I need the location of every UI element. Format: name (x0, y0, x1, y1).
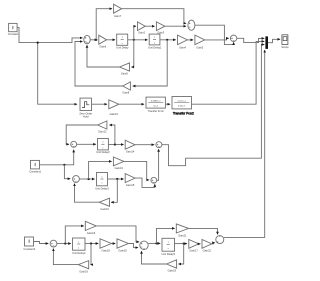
svg-text:Scope: Scope (281, 45, 289, 49)
svg-text:0.05s+1: 0.05s+1 (178, 106, 186, 108)
wire Gain10 to Transfer Fcn1 (119, 103, 144, 105)
sum SC (156, 142, 162, 148)
mux (265, 36, 268, 49)
svg-text:Gain2: Gain2 (138, 31, 145, 35)
wire Gain5 output to sum S1 bottom input (87, 45, 120, 67)
junction on SB out (88, 178, 90, 180)
wire sum SA to Unit Delay2 (77, 143, 96, 145)
wire Gain14 to sum SC (135, 144, 154, 146)
junction after UD4 (90, 242, 92, 244)
wire branch down to Gain8 input (133, 40, 167, 86)
svg-text:Gain19: Gain19 (79, 270, 88, 274)
wire Gain19 to sum SE bottom (53, 249, 78, 265)
svg-text:Gain18: Gain18 (102, 249, 111, 253)
gain G2 (138, 22, 146, 31)
wire Unit Delay5 to Gain17 (175, 243, 187, 245)
gain G5 left-pointing (120, 63, 130, 71)
sum SE (50, 240, 57, 247)
wire sum S3 out to mux input1 (237, 38, 264, 42)
svg-text:Constant1: Constant1 (29, 169, 41, 173)
wire branch down to Gain23 input (179, 244, 184, 264)
gain G19 left-pointing (78, 261, 88, 269)
svg-text:Unit Delay: Unit Delay (116, 46, 129, 50)
wire Constant1 to sum SA bottom (40, 150, 74, 165)
zero-order hold (80, 98, 92, 110)
junction before UD4 (64, 242, 66, 244)
gain G7 (114, 4, 122, 13)
junction after UD2 (114, 143, 116, 145)
wire sum SG to Unit Delay5 (148, 242, 160, 244)
svg-text:Gain21: Gain21 (178, 234, 187, 238)
junction sum S1 out (95, 39, 97, 41)
svg-text:Gain22: Gain22 (203, 249, 212, 253)
svg-text:Gain18: Gain18 (168, 269, 177, 273)
sum SA (71, 141, 77, 147)
transfer fcn TF1 (146, 97, 165, 108)
junction after UD3 (116, 178, 118, 180)
junction after Unit Delay (133, 39, 135, 41)
sum S2 (188, 20, 195, 30)
svg-text:Gain5: Gain5 (196, 45, 203, 49)
gain G5a (195, 35, 205, 45)
wire Gain3 to sum S2 input2 (165, 25, 186, 27)
wire Gain5a to sum S3 (205, 38, 229, 40)
wire sum SH out up to mux input4 (224, 50, 265, 237)
svg-text:0.4685s+1: 0.4685s+1 (151, 101, 162, 103)
wire Gain13 to sum SD left (124, 161, 149, 180)
gain G22 (202, 240, 212, 249)
svg-text:z: z (122, 43, 123, 45)
svg-text:z: z (154, 43, 155, 45)
svg-text:Gain12: Gain12 (98, 130, 107, 134)
constant C2 (31, 160, 40, 169)
svg-text:Gain14: Gain14 (126, 150, 135, 154)
wire Gain2 to Gain3 (145, 25, 154, 27)
transfer fcn TF2 (172, 97, 192, 109)
wire Gain7 to sum S2 top input (122, 9, 186, 24)
svg-text:Gain6: Gain6 (99, 45, 106, 49)
svg-text:Transfer Fcn1: Transfer Fcn1 (148, 109, 165, 113)
wire branch down to Gain5 input (132, 40, 134, 67)
junction after UD5 (183, 243, 185, 245)
svg-text:Gain7: Gain7 (114, 14, 121, 18)
wire sum SD out up to sum SC bottom (157, 149, 159, 180)
wire branch up to Gain2 (134, 26, 136, 40)
constant C3 (25, 237, 34, 246)
wire Constant to sum S1 input1 (17, 28, 82, 43)
svg-text:Gain16: Gain16 (87, 231, 96, 235)
wire Gain21 to sum SH top (189, 228, 218, 234)
wire sum SB to Unit Delay3 (79, 178, 94, 180)
wire branch up to Gain13 (89, 161, 112, 179)
junction on constant1 wire (63, 164, 65, 166)
sum S3 (230, 35, 236, 41)
wire Gain23 to sum SG bottom (142, 251, 167, 264)
svg-text:Unit Delay2: Unit Delay2 (96, 150, 110, 154)
gain G16m left-pointing (99, 198, 109, 206)
unit delay UD (117, 34, 128, 45)
sum SD (151, 177, 157, 183)
gain G6 (99, 35, 107, 44)
unit delay UD5 (162, 238, 175, 251)
wire branch up to Gain12 input (110, 125, 115, 145)
unit delay UD1 (149, 34, 160, 45)
wire TF1 to TF2 (165, 103, 170, 105)
gain G20 (117, 239, 128, 248)
wire branch up to Gain21 (157, 228, 175, 243)
wire sum S2 out to sum S3 bottom (195, 25, 234, 44)
wire Unit Delay2 to Gain14 (108, 144, 123, 146)
gain G17 (189, 240, 199, 249)
gain G14 (125, 140, 135, 149)
gain G15 (125, 174, 135, 183)
svg-text:Gain13: Gain13 (115, 166, 124, 170)
gain G3 (156, 22, 165, 31)
wire sum SC out to mux input3 (162, 45, 264, 166)
wire Gain15 around to sum SD bottom (135, 178, 155, 187)
svg-text:Gain20: Gain20 (118, 249, 127, 253)
wire sum SE to Unit Delay4 (57, 243, 71, 245)
svg-text:Unit Delay1: Unit Delay1 (148, 45, 162, 49)
gain G10 (109, 100, 119, 109)
unit delay UD2 (98, 139, 109, 150)
gain G23 left-pointing (167, 260, 177, 268)
svg-text:z: z (78, 247, 79, 249)
gain G18 (100, 239, 112, 248)
junction after Unit Delay1 (166, 39, 168, 41)
wire Gain16m to sum SB bottom (75, 184, 100, 203)
gain G13 (113, 157, 124, 166)
svg-text:Unit Delay5: Unit Delay5 (161, 252, 175, 256)
wire branch down to Gain16m input (111, 179, 117, 202)
svg-text:Gain16: Gain16 (100, 207, 109, 211)
wire Unit Delay1 to Gain4 (160, 39, 176, 41)
junction main line (37, 42, 39, 44)
wire Gain6 to Unit Delay (107, 39, 115, 41)
wire branch up to Gain16 (65, 226, 83, 244)
svg-text:Gain4: Gain4 (179, 45, 186, 49)
svg-text:Transfer Fcn2: Transfer Fcn2 (173, 112, 194, 116)
svg-text:z: z (101, 182, 102, 184)
sum SH (216, 236, 224, 244)
gain G16 (85, 221, 96, 230)
unit delay UD4 (73, 238, 86, 250)
wire Gain22 to sum SH (212, 243, 215, 244)
wire Unit Delay3 to Gain15 (108, 178, 124, 180)
wire Gain17 to Gain22 (199, 243, 201, 245)
svg-text:Hold: Hold (83, 115, 89, 119)
wire Constant2 to sum SE (34, 242, 49, 244)
svg-text:z: z (168, 248, 169, 250)
gain G4 (178, 35, 188, 45)
wire Gain16 over to sum SG top-left (96, 226, 139, 242)
constant C1 (9, 23, 18, 31)
svg-text:Constant: Constant (8, 32, 19, 36)
svg-text:Gain15: Gain15 (126, 183, 135, 187)
wire Gain20 to sum SG lower-left (128, 244, 138, 248)
wire sum S1 out to Gain6 (90, 39, 97, 41)
wire Gain12 out to sum SA left input (66, 125, 98, 144)
svg-text:Gain17: Gain17 (189, 249, 198, 253)
wire Unit Delay4 to Gain18 (85, 243, 98, 245)
svg-text:Unit Delay3: Unit Delay3 (95, 187, 109, 191)
wire Gain4 to Gain5a (187, 39, 193, 41)
wire TF2 out to mux input2 (192, 41, 265, 104)
wire branch down to Gain19 input (90, 244, 92, 265)
wire Gain8 output feedback to sum S1 input2 (75, 42, 123, 87)
wire Gain18 to Gain20 (112, 243, 116, 245)
svg-text:Gain8: Gain8 (122, 91, 129, 95)
svg-text:Unit Delay4: Unit Delay4 (72, 251, 86, 255)
wire mux out to scope (268, 39, 280, 42)
svg-text:Gain10: Gain10 (110, 112, 119, 116)
gain G8 left-pointing (123, 82, 131, 90)
wire branch down to Zero-Order Hold (38, 43, 77, 105)
wire branch up to Gain7 (96, 9, 112, 40)
wire Unit Delay to Unit Delay1 (128, 39, 148, 41)
sum SB (73, 176, 80, 183)
svg-text:z: z (102, 147, 103, 149)
wire branch down to sum SB input (64, 165, 70, 179)
svg-text:Constant2: Constant2 (23, 247, 35, 251)
scope (282, 35, 288, 45)
unit delay UD3 (97, 173, 108, 186)
svg-text:0.1ms+1: 0.1ms+1 (178, 100, 187, 102)
junction before UD5 (155, 242, 157, 244)
svg-text:Gain9: Gain9 (121, 72, 128, 76)
sum SG (140, 241, 148, 249)
gain G12 left-pointing (98, 121, 107, 129)
sum S1 (84, 35, 90, 43)
wire ZOH to Gain10 (92, 103, 107, 105)
gain G21 (176, 224, 188, 233)
